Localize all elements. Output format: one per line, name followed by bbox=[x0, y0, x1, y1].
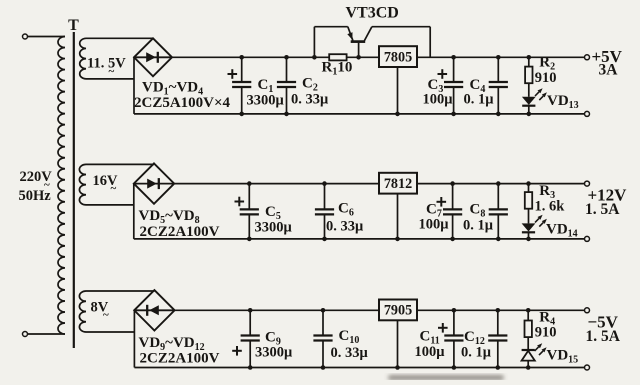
svg-text:100μ: 100μ bbox=[419, 217, 450, 233]
svg-text:T: T bbox=[68, 17, 79, 34]
svg-text:50Hz: 50Hz bbox=[19, 188, 52, 204]
wire bridge left vertex down bbox=[133, 57, 135, 114]
wire collector vertical bbox=[429, 27, 431, 58]
wire 11.5V bottom to junction bbox=[86, 78, 134, 80]
wire 8V top to bridge bbox=[86, 290, 154, 292]
LED VD15 bbox=[522, 349, 535, 351]
svg-text:7812: 7812 bbox=[384, 176, 412, 192]
wire emitter horizontal bbox=[314, 26, 347, 28]
terminal +5V bbox=[585, 55, 590, 60]
transistor Q1 base bar bbox=[351, 40, 366, 43]
svg-text:2CZ2A100V: 2CZ2A100V bbox=[140, 351, 220, 367]
LED VD14 bbox=[522, 223, 536, 231]
svg-text:1. 5A: 1. 5A bbox=[586, 328, 621, 345]
bridge rectifier VD1-VD4 bbox=[134, 38, 172, 76]
terminal row1 gnd bbox=[585, 111, 590, 116]
terminal -5V bbox=[585, 308, 590, 313]
wire row1 bottom rail bbox=[134, 113, 585, 115]
wire 7805 ground pin bbox=[397, 67, 399, 114]
svg-text:3300μ: 3300μ bbox=[247, 93, 285, 109]
resistor R4 bbox=[527, 310, 529, 320]
svg-text:2CZ2A100V: 2CZ2A100V bbox=[140, 224, 220, 240]
svg-text:~: ~ bbox=[111, 183, 117, 195]
wire 11.5V top to bridge bbox=[86, 37, 153, 39]
svg-text:1. 6k: 1. 6k bbox=[535, 198, 566, 214]
wire bridge3 left vertex down bbox=[133, 310, 135, 367]
svg-text:3A: 3A bbox=[599, 62, 619, 79]
wire primary bottom bbox=[28, 333, 66, 335]
resistor R1 bbox=[329, 54, 346, 60]
wire row3 top rail right bbox=[417, 309, 584, 311]
capacitor C9 bbox=[249, 310, 251, 335]
wire row2 bottom rail bbox=[134, 238, 584, 240]
svg-text:0. 1μ: 0. 1μ bbox=[461, 345, 492, 361]
wire row2 top rail right bbox=[417, 183, 584, 185]
capacitor C5 bbox=[248, 184, 250, 210]
capacitor C8 bbox=[497, 184, 499, 210]
svg-text:100μ: 100μ bbox=[415, 344, 446, 360]
wire row1 top rail left bbox=[172, 56, 329, 58]
wire emitter vertical bbox=[313, 27, 315, 58]
capacitor C4 bbox=[497, 57, 499, 82]
terminal row3 gnd bbox=[585, 365, 590, 370]
primary terminal top bbox=[23, 34, 28, 39]
wire row1 top rail right bbox=[417, 56, 585, 58]
scan artifact bottom bbox=[388, 375, 504, 380]
capacitor C11 bbox=[453, 310, 455, 335]
LED VD13 bbox=[522, 97, 536, 105]
capacitor C2 bbox=[286, 57, 288, 82]
wire 16V top to bridge bbox=[86, 163, 154, 165]
terminal +12V bbox=[585, 181, 590, 186]
wire 8V bottom to junction bbox=[86, 331, 134, 333]
capacitor C7 bbox=[452, 184, 454, 210]
svg-text:7905: 7905 bbox=[384, 303, 412, 319]
svg-text:7805: 7805 bbox=[384, 50, 412, 66]
capacitor C3 bbox=[453, 57, 455, 82]
primary terminal bottom bbox=[23, 332, 28, 337]
wire 16V bottom to junction bbox=[86, 204, 134, 206]
svg-text:VT3CD: VT3CD bbox=[346, 5, 399, 22]
transformer core bbox=[73, 32, 75, 348]
LED VD13 arrows bbox=[535, 92, 539, 96]
wire 7905 ground pin bbox=[397, 320, 399, 367]
wire row2 top rail left bbox=[174, 183, 379, 185]
wire bridge2 left vertex down bbox=[133, 184, 135, 239]
capacitor C12 bbox=[497, 310, 499, 335]
svg-text:3300μ: 3300μ bbox=[255, 220, 293, 236]
svg-text:3300μ: 3300μ bbox=[255, 345, 293, 361]
terminal row2 gnd bbox=[585, 236, 590, 241]
secondary winding 8V bbox=[79, 291, 86, 332]
bridge rectifier VD9-VD12 bbox=[134, 290, 174, 330]
svg-text:2CZ5A100V×4: 2CZ5A100V×4 bbox=[134, 95, 231, 111]
bridge rectifier VD5-VD8 bbox=[134, 163, 174, 203]
regulator 7805 bbox=[379, 46, 417, 67]
capacitor C6 bbox=[324, 184, 326, 210]
capacitor C1 bbox=[241, 57, 243, 82]
svg-text:11. 5V: 11. 5V bbox=[87, 56, 126, 72]
primary winding bbox=[58, 37, 65, 335]
wire 7812 ground pin bbox=[397, 194, 399, 239]
svg-text:R1​10: R1​10 bbox=[322, 60, 353, 78]
capacitor C10 bbox=[322, 310, 324, 335]
svg-text:0. 33μ: 0. 33μ bbox=[291, 92, 329, 108]
wire row3 bottom rail bbox=[134, 367, 584, 369]
regulator 7905 bbox=[379, 300, 417, 321]
svg-text:100μ: 100μ bbox=[423, 92, 454, 108]
secondary winding 11.5V bbox=[80, 38, 86, 79]
wire row3 top rail left bbox=[175, 309, 379, 311]
svg-text:0. 33μ: 0. 33μ bbox=[326, 219, 364, 235]
wire collector horizontal bbox=[372, 26, 430, 28]
regulator 7812 bbox=[379, 173, 417, 194]
svg-text:0. 33μ: 0. 33μ bbox=[331, 345, 369, 361]
svg-text:~: ~ bbox=[103, 309, 109, 321]
svg-text:0. 1μ: 0. 1μ bbox=[464, 92, 495, 108]
svg-text:910: 910 bbox=[535, 70, 557, 86]
resistor R2 bbox=[528, 57, 530, 66]
svg-text:0. 1μ: 0. 1μ bbox=[463, 218, 494, 234]
LED VD15 arrows bbox=[535, 347, 539, 351]
secondary winding 16V bbox=[79, 164, 86, 204]
transistor Q1 emitter bbox=[348, 27, 353, 41]
resistor R3 bbox=[528, 184, 530, 193]
svg-text:1. 5A: 1. 5A bbox=[585, 201, 620, 218]
svg-text:~: ~ bbox=[109, 66, 115, 78]
transistor Q1 base lead bbox=[358, 43, 360, 58]
transistor Q1 collector bbox=[364, 27, 372, 41]
wire primary top bbox=[28, 36, 66, 38]
wire row1 top rail mid bbox=[347, 56, 380, 58]
LED VD14 arrows bbox=[535, 218, 539, 222]
svg-text:910: 910 bbox=[535, 325, 557, 341]
